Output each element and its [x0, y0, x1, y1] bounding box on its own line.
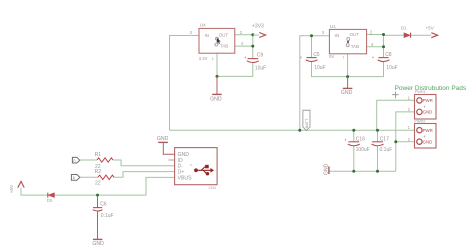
mouse cursor — [217, 38, 221, 44]
wire PWR2 pin2 — [396, 141, 415, 143]
svg-text:10uF: 10uF — [314, 65, 325, 71]
wire to diode D1 — [384, 34, 432, 36]
svg-text:GND: GND — [157, 136, 169, 142]
net tag D+ — [71, 175, 79, 181]
svg-text:10uF: 10uF — [255, 66, 266, 72]
wire U4 TAB — [235, 45, 253, 47]
capacitor C9 — [244, 52, 266, 71]
wire +5V bottom rail to VBUS — [21, 177, 175, 195]
usb connector CN1 — [169, 148, 218, 191]
ground above CN1 — [157, 136, 175, 154]
svg-text:+: + — [372, 55, 375, 60]
capacitor C6 — [93, 195, 114, 239]
wire BATT vertical to U1 input — [300, 36, 330, 131]
svg-text:GND: GND — [341, 90, 353, 96]
resistor R2 — [95, 169, 114, 187]
svg-text:PWR2: PWR2 — [414, 119, 425, 123]
svg-text:R2: R2 — [95, 169, 102, 175]
regulator U1 — [322, 24, 374, 60]
wire U1 ground pin — [347, 54, 349, 77]
svg-text:OUT: OUT — [219, 32, 229, 37]
svg-text:22: 22 — [95, 181, 101, 187]
svg-text:C9: C9 — [257, 52, 264, 58]
wire tag2 to R2 to D+ — [80, 172, 175, 178]
svg-text:R1: R1 — [95, 152, 102, 158]
svg-text:+5V: +5V — [426, 25, 435, 30]
svg-text:PWR: PWR — [423, 128, 433, 133]
svg-text:C6: C6 — [100, 202, 107, 208]
wire U1 TAB — [367, 46, 384, 48]
svg-text:GND: GND — [423, 139, 433, 144]
svg-text:GND: GND — [324, 163, 330, 175]
wire C5 C8 ground rail — [312, 62, 384, 77]
svg-text:+3V3: +3V3 — [252, 23, 264, 29]
svg-text:C16: C16 — [356, 137, 365, 143]
capacitor C16 — [344, 137, 369, 154]
wire right ground rail — [329, 170, 396, 172]
regulator U4 — [190, 23, 244, 62]
svg-text:+: + — [300, 55, 303, 60]
ground under U4 — [210, 76, 222, 102]
wire PWR1 pin2 to ground rail — [396, 112, 415, 171]
svg-text:Power Distrubution Pads: Power Distrubution Pads — [395, 85, 467, 92]
pad PWR1 — [408, 90, 436, 119]
svg-text:100uF: 100uF — [356, 147, 370, 153]
svg-text:IN: IN — [205, 33, 209, 38]
svg-text:0.1uF: 0.1uF — [380, 147, 393, 153]
svg-text:U1: U1 — [330, 24, 336, 29]
pad PWR2 — [408, 119, 436, 148]
wire PWR1 pin1 — [377, 100, 415, 130]
svg-text:CN1: CN1 — [209, 186, 217, 190]
svg-text:+5V: +5V — [9, 184, 14, 193]
wire C16 leads — [353, 130, 355, 171]
capacitor C8 — [372, 52, 398, 71]
svg-text:IN: IN — [335, 33, 339, 38]
wire C17 leads — [377, 130, 379, 171]
supply +5V top right — [426, 25, 438, 37]
svg-text:+: + — [344, 138, 347, 143]
svg-text:C8: C8 — [385, 52, 392, 58]
wire U1 OUT — [367, 34, 384, 36]
svg-text:C5: C5 — [313, 52, 320, 58]
net tag D- — [72, 157, 79, 163]
wire +3V3 vertical to C9 — [217, 35, 253, 77]
svg-text:0.1uF: 0.1uF — [101, 213, 114, 219]
svg-text:VBUS: VBUS — [178, 175, 193, 181]
ground left of right rail — [324, 163, 330, 175]
diode D5 — [47, 193, 55, 203]
wire U4 input from rail — [170, 36, 200, 131]
capacitor C5 — [300, 52, 326, 71]
svg-text:U4: U4 — [200, 23, 206, 28]
svg-text:D1: D1 — [401, 26, 407, 31]
wire U4 ground pin — [216, 53, 218, 76]
svg-text:10uF: 10uF — [386, 65, 397, 71]
wire U4 OUT — [235, 34, 253, 36]
svg-text:TAB: TAB — [351, 44, 359, 49]
diode D1 — [401, 26, 411, 38]
svg-text:GND: GND — [423, 110, 433, 115]
wire main power rail — [170, 129, 415, 131]
capacitor C17 — [372, 137, 393, 154]
svg-text:C17: C17 — [380, 137, 389, 143]
origin cross — [392, 92, 399, 99]
wire C5 stub — [311, 36, 313, 58]
svg-text:+: + — [244, 55, 247, 60]
svg-text:GND: GND — [92, 241, 104, 247]
svg-text:3.3V: 3.3V — [199, 56, 208, 61]
svg-text:OUT: OUT — [350, 32, 360, 37]
usb icon — [190, 164, 214, 175]
resistor R1 — [95, 152, 113, 170]
ground under C6 — [92, 239, 104, 247]
wire +5V vertical to C8 — [383, 35, 385, 58]
svg-text:5V: 5V — [329, 54, 334, 59]
svg-text:BATT: BATT — [304, 118, 309, 128]
svg-text:PWR: PWR — [423, 98, 433, 103]
svg-text:TAB: TAB — [220, 44, 228, 49]
ground under U1 — [341, 77, 353, 96]
svg-text:D5: D5 — [47, 198, 53, 203]
title Power Distribution Pads — [395, 85, 467, 92]
wire tag1 to R1 to D- — [80, 160, 175, 166]
svg-text:GND: GND — [210, 96, 222, 102]
net tag BATT — [303, 110, 310, 130]
supply +5V bottom left — [9, 181, 24, 193]
supply +3V3 — [252, 23, 266, 37]
